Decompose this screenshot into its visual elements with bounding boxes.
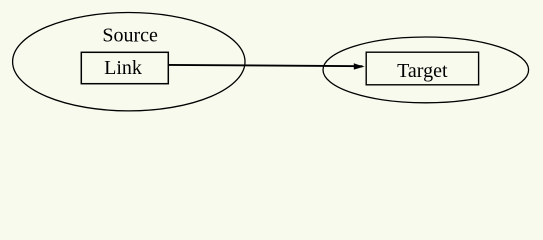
svg-text:Source: Source	[102, 24, 158, 46]
target box	[366, 52, 478, 85]
source ellipse	[13, 13, 245, 111]
link box	[81, 52, 168, 83]
svg-text:Link: Link	[104, 57, 142, 79]
wire arrow shaft	[168, 65, 362, 66]
arrowhead	[354, 63, 365, 69]
svg-text:Target: Target	[397, 60, 448, 82]
target ellipse	[323, 37, 529, 103]
